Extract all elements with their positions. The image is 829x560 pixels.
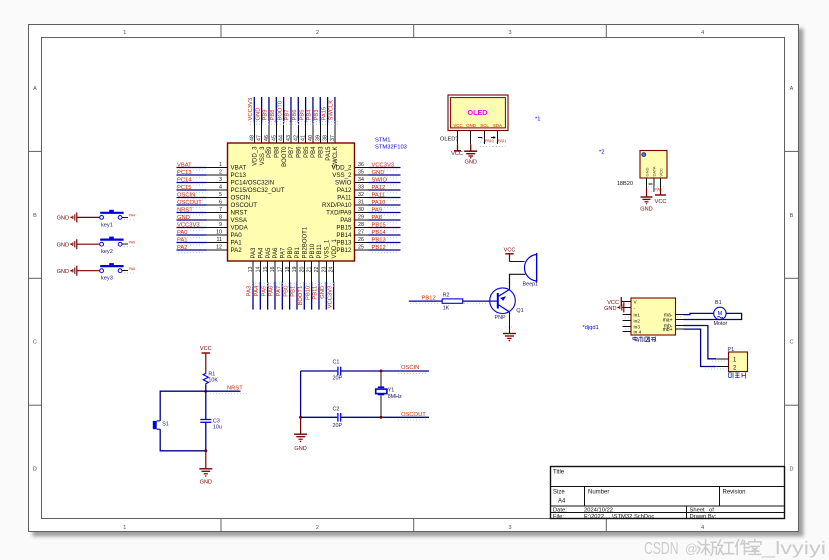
wire R2 to Q1 base — [463, 301, 490, 304]
STM1 pin 39 PB3 - wire and net label PB3 — [314, 97, 325, 158]
svg-text:PA3: PA3 — [247, 286, 253, 297]
svg-text:PA3: PA3 — [251, 247, 257, 259]
svg-text:34: 34 — [358, 177, 364, 183]
STM1 pin 35 VSS_2 - wire and net label GND — [332, 170, 400, 179]
svg-text:PA7: PA7 — [281, 247, 287, 259]
STM1 pin 17 PA7 - wire and net label PA7 — [276, 247, 287, 310]
switch key1 — [100, 210, 124, 229]
svg-text:20P: 20P — [333, 423, 343, 429]
STM1 pin 47 VSS_3 - wire and net label GND — [255, 97, 266, 165]
svg-text:2: 2 — [316, 30, 319, 36]
svg-text:SCL: SCL — [480, 123, 489, 128]
STM1 pin 8 VSSA - wire and net label GND — [177, 215, 248, 224]
18B20 pin1 wire — [646, 178, 648, 197]
svg-text:VSS_2: VSS_2 — [332, 172, 352, 179]
wire mb- to P1 pin1 — [684, 326, 717, 359]
wire S1 to bottom node — [160, 429, 206, 451]
svg-text:STM1: STM1 — [375, 138, 390, 144]
svg-text:PB2BOOT1: PB2BOOT1 — [303, 226, 309, 258]
svg-text:PA4: PA4 — [129, 214, 136, 218]
wire VCC to buzzer — [510, 254, 525, 262]
svg-text:PA15: PA15 — [321, 107, 327, 121]
svg-text:PB11: PB11 — [317, 244, 323, 259]
power VCC (motor driver) — [607, 297, 622, 306]
power VCC (OLED) — [451, 144, 463, 157]
svg-text:PB13: PB13 — [336, 240, 352, 247]
STM1 pin 37 SWCLK - wire and net label SWCLK — [329, 97, 340, 168]
svg-text:PB10: PB10 — [485, 139, 494, 143]
STM1 pin 28 PB15 - wire and net label PB15 — [336, 222, 400, 231]
STM1 pin 2 PC13 - wire and net label PC13 — [177, 170, 247, 179]
svg-text:4: 4 — [701, 525, 704, 531]
wire key2 to net PA5 — [122, 240, 135, 246]
switch S1 — [153, 421, 169, 429]
STM1 pin 29 PA8 - wire and net label PA8 — [340, 215, 400, 224]
svg-text:38: 38 — [323, 135, 329, 141]
svg-text:C1: C1 — [333, 360, 340, 366]
STM1 pin 42 PB6 - wire and net label PB6 — [292, 97, 303, 158]
resistor R2 1K — [442, 292, 463, 311]
svg-text:C: C — [33, 340, 37, 346]
ground GND (buzzer) — [503, 334, 516, 342]
STM1 pin 25 PB12 - wire and net label PB12 — [336, 245, 400, 254]
18B20 pin2 DATA stub — [648, 178, 666, 192]
svg-text:43: 43 — [286, 135, 292, 141]
svg-text:SWCLK: SWCLK — [329, 100, 335, 121]
STM1 pin 16 PA6 - wire and net label PA6 — [269, 247, 280, 310]
ground symbol (sideways) key3 — [57, 266, 77, 276]
svg-text:PB15: PB15 — [336, 225, 352, 232]
svg-text:PB5: PB5 — [299, 110, 305, 121]
svg-text:8MHz: 8MHz — [388, 394, 402, 400]
svg-text:VBAT: VBAT — [231, 165, 247, 172]
STM1 pin 32 PA11 - wire and net label PA11 — [337, 192, 400, 201]
svg-text:44: 44 — [279, 135, 285, 141]
STM1 pin 23 VSS_1 - wire and net label GND — [320, 239, 331, 309]
svg-text:VBAT: VBAT — [177, 162, 192, 168]
wire bottom node to GND — [205, 451, 207, 469]
wire Q1 emitter to buzzer — [510, 274, 526, 289]
svg-text:2: 2 — [219, 170, 222, 176]
svg-text:2: 2 — [316, 525, 319, 531]
svg-text:PB10: PB10 — [305, 286, 311, 300]
net label PB12 wire — [409, 296, 442, 304]
OLED pin GND wire — [470, 131, 472, 145]
svg-text:Date:: Date: — [553, 507, 567, 513]
wire key3 to net PA6 — [122, 267, 135, 273]
svg-text:35: 35 — [358, 170, 364, 176]
18B20 pin3 VCC wire — [660, 178, 662, 195]
svg-text:48: 48 — [249, 135, 255, 141]
svg-text:@: @ — [685, 542, 698, 556]
svg-text:PA0: PA0 — [177, 230, 188, 236]
svg-text:GND: GND — [604, 306, 616, 312]
svg-text:PA15: PA15 — [326, 146, 332, 161]
svg-text:PB4: PB4 — [311, 146, 317, 158]
svg-text:*djqd1: *djqd1 — [582, 325, 598, 331]
svg-text:10: 10 — [216, 230, 222, 236]
junction OSCIN node — [380, 370, 383, 373]
svg-text:E:\2022.....\STM32.SchDoc: E:\2022.....\STM32.SchDoc — [584, 514, 654, 520]
svg-text:GND: GND — [177, 215, 190, 221]
svg-text:2024/10/22: 2024/10/22 — [584, 507, 613, 513]
junction OSCOUT node — [380, 416, 383, 419]
svg-text:37: 37 — [330, 135, 336, 141]
svg-text:R2: R2 — [443, 292, 450, 298]
ground GND (OLED) — [464, 144, 477, 165]
net label OSCIN — [398, 365, 427, 374]
svg-text:OSCOUT: OSCOUT — [401, 412, 426, 418]
svg-text:PB8: PB8 — [274, 146, 280, 158]
svg-text:PA5: PA5 — [266, 247, 272, 259]
svg-text:OSCIN: OSCIN — [401, 365, 419, 371]
svg-text:PA1: PA1 — [177, 237, 188, 243]
connector P1 body — [728, 347, 748, 372]
svg-text:OLED: OLED — [468, 108, 488, 117]
svg-text:1K: 1K — [443, 306, 450, 312]
svg-text:PB6: PB6 — [292, 110, 298, 121]
wire ma- to motor B1 — [684, 313, 714, 314]
svg-text:PB9: PB9 — [267, 146, 273, 158]
svg-text:PA6: PA6 — [269, 286, 275, 297]
wire GND to key2 — [77, 243, 100, 245]
svg-text:Number: Number — [588, 490, 609, 496]
switch key3 — [100, 263, 124, 282]
svg-text:39: 39 — [315, 135, 321, 141]
svg-text:42: 42 — [293, 135, 299, 141]
svg-text:3: 3 — [219, 177, 222, 183]
wire GND to key3 — [77, 270, 100, 272]
svg-text:of: of — [709, 507, 714, 513]
svg-text:GND: GND — [57, 216, 69, 222]
capacitor C2 20P — [301, 407, 429, 429]
designator *djqd1 — [582, 325, 598, 331]
svg-text:Title: Title — [553, 470, 565, 476]
svg-text:31: 31 — [358, 200, 364, 206]
svg-text:PB5: PB5 — [304, 146, 310, 158]
svg-text:SWIO: SWIO — [335, 180, 352, 187]
svg-text:7: 7 — [219, 207, 222, 213]
svg-text:PB7: PB7 — [285, 110, 291, 121]
STM1 pin 21 PB10 - wire and net label PB10 — [305, 243, 316, 309]
node NRST junction — [204, 390, 207, 393]
svg-text:A: A — [790, 86, 794, 92]
svg-text:S1: S1 — [162, 422, 169, 428]
svg-text:TXD/PA9: TXD/PA9 — [326, 210, 352, 217]
svg-text:PB12: PB12 — [422, 296, 436, 302]
svg-text:PB7: PB7 — [289, 146, 295, 158]
svg-text:GND: GND — [255, 108, 261, 121]
power VCC (18B20) — [655, 195, 667, 205]
svg-text:40: 40 — [308, 135, 314, 141]
svg-text:4: 4 — [219, 185, 222, 191]
STM1 pin 15 PA5 - wire and net label PA5 — [261, 247, 272, 310]
svg-text:PB6: PB6 — [296, 146, 302, 158]
STM1 pin 45 PB8 - wire and net label PB8 — [270, 97, 281, 158]
svg-text:P1: P1 — [728, 347, 735, 353]
svg-text:VCC: VCC — [504, 248, 516, 254]
svg-text:SDA: SDA — [493, 123, 502, 128]
motor driver right pin stubs — [676, 315, 684, 330]
net label NRST wire — [206, 386, 248, 394]
STM1 pin 13 PA3 - wire and net label PA3 — [247, 247, 258, 310]
svg-text:10u: 10u — [213, 425, 222, 431]
svg-text:PA6: PA6 — [273, 247, 279, 259]
svg-text:PB11: PB11 — [498, 139, 507, 143]
svg-text:PA2: PA2 — [177, 245, 188, 251]
capacitor C1 20P — [301, 360, 429, 382]
svg-text:mb+: mb+ — [663, 327, 673, 333]
svg-text:BOOT0: BOOT0 — [282, 146, 288, 167]
svg-text:27: 27 — [358, 230, 364, 236]
svg-text:key3: key3 — [101, 276, 113, 282]
svg-text:PA4: PA4 — [254, 285, 260, 296]
svg-text:NRST: NRST — [227, 386, 243, 392]
svg-text:D: D — [790, 467, 794, 473]
svg-text:33: 33 — [358, 185, 364, 191]
svg-text:*2: *2 — [599, 150, 604, 156]
svg-text:VCC: VCC — [658, 168, 663, 177]
svg-text:key1: key1 — [101, 222, 113, 228]
svg-text:Beep1: Beep1 — [523, 282, 539, 288]
svg-text:20P: 20P — [333, 376, 343, 382]
svg-text:BOOT1: BOOT1 — [298, 286, 304, 306]
18B20 sensor body — [617, 151, 667, 188]
svg-text:22: 22 — [314, 266, 320, 272]
svg-text:30: 30 — [358, 207, 364, 213]
svg-text:VCC: VCC — [655, 199, 667, 205]
svg-text:PB11: PB11 — [313, 286, 319, 300]
svg-text:PC13: PC13 — [177, 170, 192, 176]
wire rail to GND — [300, 417, 302, 434]
junction left rail bottom — [299, 416, 302, 419]
STM1 pin 43 PB7 - wire and net label PB7 — [285, 97, 296, 158]
svg-text:PB3: PB3 — [314, 110, 320, 121]
svg-text:45: 45 — [271, 135, 277, 141]
svg-text:in2: in2 — [634, 319, 641, 325]
connector P1 pin stubs — [705, 359, 729, 369]
STM1 pin 3 PC14/OSC32IN - wire and net label PC14 — [177, 177, 275, 186]
svg-text:21: 21 — [307, 266, 313, 272]
node bottom junction — [204, 449, 207, 452]
svg-text:OSCIN: OSCIN — [231, 195, 251, 202]
compile mask dots top — [250, 122, 338, 125]
svg-text:PB1: PB1 — [291, 286, 297, 297]
svg-text:C: C — [790, 340, 794, 346]
svg-text:Drawn By:: Drawn By: — [690, 514, 717, 520]
svg-text:VCC: VCC — [451, 151, 463, 157]
wire GND to key1 — [77, 216, 100, 218]
svg-text:GND: GND — [372, 170, 385, 176]
svg-text:VCC: VCC — [453, 123, 462, 128]
title block — [551, 467, 785, 521]
compile mask dots bottom — [249, 283, 336, 286]
net label OSCOUT — [398, 412, 427, 420]
wire crystal left rail — [300, 371, 302, 417]
svg-text:VSS_3: VSS_3 — [260, 146, 266, 165]
svg-text:D: D — [33, 467, 37, 473]
STM1 pin 14 PA4 - wire and net label PA4 — [254, 247, 265, 310]
svg-text:12: 12 — [216, 245, 222, 251]
OLED pin SDA stub net PB11 — [491, 131, 508, 147]
svg-text:OSCOUT: OSCOUT — [231, 202, 258, 209]
STM1 pin 5 OSCIN - wire and net label OSCIN — [177, 192, 251, 201]
power VCC (reset) — [200, 346, 212, 372]
svg-text:PB15: PB15 — [372, 222, 386, 228]
svg-text:PC15: PC15 — [177, 185, 192, 191]
wire NRST node to S1 branch — [160, 391, 206, 421]
note *1 — [535, 117, 540, 123]
switch key2 — [100, 237, 124, 256]
svg-text:Q1: Q1 — [516, 308, 523, 314]
svg-text:VSS_1: VSS_1 — [325, 239, 331, 258]
svg-text:8: 8 — [219, 215, 222, 221]
STM1 pin 12 PA2 - wire and net label PA2 — [177, 245, 243, 254]
STM1 pin 26 PB13 - wire and net label PB13 — [336, 237, 400, 246]
STM1 pin 48 VDD_3 - wire and net label VCC3V3 — [248, 97, 259, 166]
svg-text:VDD_3: VDD_3 — [253, 146, 259, 166]
svg-text:C2: C2 — [333, 407, 340, 413]
IC U-STM1 STM32F103 body — [228, 138, 407, 262]
svg-text:in 4: in 4 — [634, 329, 642, 335]
svg-text:PA6: PA6 — [129, 267, 136, 271]
svg-text:1: 1 — [219, 162, 222, 168]
svg-text:GND: GND — [464, 159, 476, 165]
svg-text:PA5: PA5 — [261, 286, 267, 297]
svg-text:VDDA: VDDA — [231, 225, 249, 232]
svg-text:16: 16 — [270, 266, 276, 272]
motor driver module body — [631, 298, 676, 335]
wire mb+ to P1 pin2 — [684, 329, 717, 366]
svg-text:GND: GND — [57, 242, 69, 248]
svg-text:B: B — [790, 213, 794, 219]
svg-text:17: 17 — [277, 266, 283, 272]
STM1 pin 38 PA15 - wire and net label PA15 — [321, 97, 332, 161]
svg-text:OSCIN: OSCIN — [177, 192, 195, 198]
svg-text:GND: GND — [200, 480, 212, 486]
svg-text:PC14/OSC32IN: PC14/OSC32IN — [231, 180, 275, 187]
svg-text:4: 4 — [701, 30, 704, 36]
svg-text:M: M — [718, 311, 723, 317]
svg-text:OSCOUT: OSCOUT — [177, 200, 202, 206]
label dianji-qudong — [633, 336, 656, 342]
svg-text:Motor: Motor — [714, 321, 728, 327]
svg-text:26: 26 — [358, 237, 364, 243]
STM1 pin 46 PB9 - wire and net label PB9 — [263, 97, 274, 158]
svg-text:DATA: DATA — [652, 166, 657, 176]
svg-text:VDD_1: VDD_1 — [332, 238, 338, 258]
ground GND (crystal) — [294, 434, 307, 452]
svg-text:PA10: PA10 — [372, 200, 386, 206]
svg-text:GND: GND — [640, 207, 652, 213]
svg-text:19: 19 — [292, 266, 298, 272]
svg-text:_lvyiyi: _lvyiyi — [761, 538, 826, 559]
STM1 pin 41 PB5 - wire and net label PB5 — [299, 97, 310, 158]
svg-text:PB12: PB12 — [336, 247, 352, 254]
STM1 pin 20 PB2BOOT1 - wire and net label BOOT1 — [298, 226, 309, 309]
ground symbol (sideways) key2 — [57, 239, 77, 249]
svg-text:3: 3 — [508, 525, 511, 531]
svg-text:PB3: PB3 — [318, 146, 324, 158]
svg-text:CSDN: CSDN — [644, 538, 679, 558]
STM1 pin 1 VBAT - wire and net label VBAT — [177, 162, 247, 171]
svg-text:Revision: Revision — [723, 490, 746, 496]
svg-text:PB4: PB4 — [307, 109, 313, 121]
STM1 pin 22 PB11 - wire and net label PB11 — [313, 244, 324, 310]
svg-text:SWCLK: SWCLK — [333, 147, 339, 168]
svg-text:NRST: NRST — [177, 207, 193, 213]
power VCC (buzzer) — [504, 248, 516, 254]
svg-text:10K: 10K — [208, 377, 218, 383]
svg-text:PC14: PC14 — [177, 177, 192, 183]
svg-text:PA5: PA5 — [129, 240, 136, 244]
transistor Q1 PNP — [490, 288, 524, 321]
svg-text:VSSA: VSSA — [231, 217, 248, 224]
svg-text:B1: B1 — [715, 300, 722, 306]
svg-text:NRST: NRST — [231, 210, 248, 217]
svg-text:VCC: VCC — [200, 346, 212, 352]
STM1 pin 18 PB0 - wire and net label PB0 — [283, 246, 294, 309]
svg-text:PC15/OSC32_OUT: PC15/OSC32_OUT — [231, 187, 285, 194]
svg-text:PB9: PB9 — [263, 110, 269, 121]
svg-text:PA0: PA0 — [231, 232, 243, 239]
STM1 pin 7 NRST - wire and net label NRST — [177, 207, 248, 216]
svg-text:GND: GND — [294, 446, 306, 452]
svg-text:PA7: PA7 — [276, 286, 282, 297]
STM1 pin 24 VDD_1 - wire and net label VCC3V3 — [327, 238, 338, 309]
ground GND (18B20) — [640, 197, 652, 213]
svg-text:Y1: Y1 — [388, 388, 395, 394]
ground GND (reset) — [199, 469, 212, 486]
svg-text:24: 24 — [329, 266, 335, 272]
svg-text:GND: GND — [57, 269, 69, 275]
wire Q1 collector to GND — [505, 312, 514, 334]
svg-text:PA2: PA2 — [231, 247, 243, 254]
svg-text:PB1: PB1 — [295, 246, 301, 258]
STM1 pin 34 SWIO - wire and net label SWIO — [335, 177, 401, 186]
svg-text:VCC3V3: VCC3V3 — [177, 222, 200, 228]
svg-text:18B20: 18B20 — [617, 181, 633, 187]
svg-text:5: 5 — [219, 192, 222, 198]
svg-text:15: 15 — [263, 266, 269, 272]
svg-text:PA12: PA12 — [337, 187, 352, 194]
svg-text:STM32F103: STM32F103 — [375, 145, 407, 151]
svg-text:A4: A4 — [558, 499, 566, 505]
motor B1 — [714, 300, 728, 327]
svg-text:32: 32 — [358, 192, 364, 198]
svg-text:PA9: PA9 — [372, 207, 383, 213]
svg-text:Size: Size — [553, 490, 565, 496]
svg-text:GND: GND — [466, 123, 476, 128]
svg-text:25: 25 — [358, 245, 364, 251]
svg-text:GND: GND — [320, 286, 326, 299]
wire motor B1 to ma+ — [684, 313, 742, 319]
STM1 pin 40 PB4 - wire and net label PB4 — [307, 97, 318, 158]
STM1 pin 33 PA12 - wire and net label PA12 — [337, 185, 401, 194]
svg-text:41: 41 — [301, 135, 307, 141]
svg-text:46: 46 — [264, 135, 270, 141]
STM1 pin 11 PA1 - wire and net label PA1 — [177, 237, 243, 246]
note *2 — [599, 150, 604, 156]
svg-text:PA11: PA11 — [337, 195, 352, 202]
svg-text:SWIO: SWIO — [372, 177, 388, 183]
svg-text:PA4: PA4 — [259, 247, 265, 259]
svg-text:RXD/PA10: RXD/PA10 — [322, 202, 352, 209]
buzzer Beep1 — [523, 253, 539, 288]
svg-text:PB12: PB12 — [372, 245, 386, 251]
svg-text:PC13: PC13 — [231, 172, 247, 179]
STM1 pin 44 BOOT0 - wire and net label BOOT0 — [277, 97, 288, 167]
